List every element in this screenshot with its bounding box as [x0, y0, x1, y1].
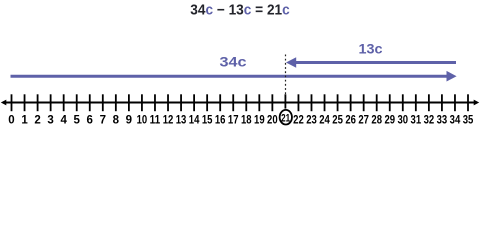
svg-text:14: 14 — [189, 115, 200, 127]
svg-text:2: 2 — [34, 115, 40, 127]
svg-text:5: 5 — [74, 115, 81, 127]
svg-text:15: 15 — [202, 115, 213, 127]
svg-text:29: 29 — [384, 115, 395, 127]
svg-text:6: 6 — [87, 115, 93, 127]
svg-text:34: 34 — [450, 115, 461, 127]
svg-text:23: 23 — [306, 115, 317, 127]
svg-text:20: 20 — [267, 115, 278, 127]
svg-text:0: 0 — [8, 115, 14, 127]
svg-text:1: 1 — [21, 115, 28, 127]
svg-text:9: 9 — [126, 115, 132, 127]
svg-text:10: 10 — [137, 115, 148, 127]
svg-text:18: 18 — [241, 115, 252, 127]
svg-text:3: 3 — [47, 115, 53, 127]
svg-text:4: 4 — [60, 115, 67, 127]
svg-text:8: 8 — [113, 115, 120, 127]
svg-text:31: 31 — [411, 115, 422, 127]
svg-text:13c: 13c — [359, 41, 383, 57]
svg-text:13: 13 — [176, 115, 187, 127]
svg-text:21: 21 — [281, 112, 290, 124]
svg-text:34c: 34c — [220, 54, 247, 70]
svg-text:34c − 13c = 21c: 34c − 13c = 21c — [190, 2, 290, 18]
svg-text:7: 7 — [100, 115, 106, 127]
svg-text:24: 24 — [319, 115, 330, 127]
svg-text:11: 11 — [150, 115, 161, 127]
svg-text:32: 32 — [424, 115, 435, 127]
svg-text:25: 25 — [332, 115, 343, 127]
svg-text:28: 28 — [371, 115, 382, 127]
svg-text:17: 17 — [228, 115, 239, 127]
svg-text:26: 26 — [345, 115, 356, 127]
svg-text:27: 27 — [358, 115, 369, 127]
svg-text:19: 19 — [254, 115, 265, 127]
svg-text:30: 30 — [397, 115, 408, 127]
svg-text:16: 16 — [215, 115, 226, 127]
svg-text:22: 22 — [293, 115, 304, 127]
svg-text:35: 35 — [463, 115, 474, 127]
svg-text:33: 33 — [437, 115, 448, 127]
svg-text:12: 12 — [163, 115, 174, 127]
